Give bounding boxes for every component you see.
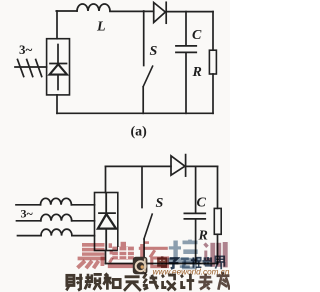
switch S (circuit a) upper lead [143, 11, 145, 66]
inductor phase 1 (circuit b) [41, 198, 72, 205]
watermark red char tuo (expand) [139, 243, 168, 267]
capacitor C (circuit b) bottom lead [195, 220, 197, 264]
diode D (circuit a) cathode bar [165, 2, 167, 23]
svg-text:(a): (a) [131, 125, 148, 140]
switch S (circuit b) lower lead [143, 239, 145, 263]
wire: circuit (a) top rail to diode [110, 10, 154, 12]
svg-text:C: C [192, 28, 202, 43]
wire: circuit (b) right rail lower [217, 234, 219, 263]
inductor phase 3 (circuit b) [41, 229, 72, 236]
wire: three-phase line 1 (circuit b) [16, 204, 41, 206]
watermark rose char xun (training) [205, 242, 226, 267]
inductor L (circuit a) [77, 4, 110, 11]
watermark gray char she (shoot) [66, 274, 82, 291]
wire: phase 3 to rectifier (circuit b) [72, 235, 95, 237]
watermark gray slogan row (scaled) [66, 272, 229, 291]
wire: circuit (b) top rail to diode [106, 165, 172, 167]
wire: phase 2 to rectifier (circuit b) [72, 220, 95, 222]
rectifier U1 (circuit a) box [47, 39, 70, 95]
switch S (circuit b) upper lead [141, 166, 143, 207]
watermark navy char jie (boundary) [215, 256, 224, 269]
rectifier U2 (circuit b) internal diode [98, 193, 116, 250]
diode D (circuit b) triangle [171, 156, 185, 175]
watermark navy char dian (electric) [158, 256, 167, 266]
diode D (circuit a) triangle [154, 3, 166, 23]
svg-text:L: L [96, 20, 106, 35]
wire: circuit (a) top rail left segment [56, 10, 77, 12]
switch S (circuit b) blade [144, 214, 152, 239]
wire: three-phase line 2 (circuit b) [17, 220, 41, 222]
switch S (circuit a) lower lead [142, 87, 144, 113]
resistor R (circuit b) [214, 208, 221, 234]
diode D (circuit b) cathode bar [185, 155, 187, 177]
wire: circuit (b) bottom rail [106, 263, 218, 265]
watermark gray char he (harmony) [103, 273, 120, 289]
capacitor C (circuit a) bottom lead [185, 53, 187, 113]
watermark char di white slots [119, 247, 127, 259]
wire: circuit (a) top-left vertical from rectifier to top rail [56, 11, 58, 39]
wire: three-phase line 3 (circuit b) [18, 235, 42, 237]
wire: circuit (b) top-left vertical [105, 166, 107, 192]
watermark gray char xian (wire) [143, 274, 158, 290]
wire: circuit (b) right rail upper [217, 166, 219, 208]
rectifier U2 (circuit b) box [95, 193, 118, 251]
watermark slate char pei (cultivate) [169, 240, 198, 258]
svg-text:3~: 3~ [21, 207, 34, 221]
inductor phase 2 (circuit b) [41, 214, 72, 221]
wire: circuit (a) bottom-left vertical [56, 95, 58, 113]
svg-text:R: R [192, 65, 202, 80]
watermark red char yi (easy) [78, 243, 106, 260]
resistor R (circuit a) [209, 50, 216, 74]
watermark gray char tian (sky) [124, 277, 141, 291]
svg-text:S: S [150, 44, 158, 59]
watermark logo eeworld [133, 257, 148, 274]
watermark gray char zhuan (expert) [198, 274, 212, 290]
watermark gray char she2 (design) [162, 275, 176, 291]
capacitor C (circuit b) plates [184, 213, 205, 219]
watermark navy char shi (world) [202, 257, 212, 265]
three-phase slash marks (circuit a) [18, 60, 42, 77]
watermark slate char gong (work) [180, 259, 190, 267]
capacitor C (circuit b) top lead [195, 166, 197, 212]
watermark red char di (enlighten) [108, 242, 137, 268]
wire: circuit (a) right rail lower [212, 74, 214, 113]
wire: circuit (b) top rail right segment [186, 165, 218, 167]
switch S (circuit a) blade [143, 66, 152, 86]
watermark navy char cheng (journey) [191, 257, 202, 267]
svg-text:R: R [198, 229, 208, 244]
svg-text:C: C [197, 196, 207, 211]
watermark gray char pin (frequency) [85, 274, 102, 290]
watermark navy char zi (child) [169, 258, 179, 268]
wire: circuit (a) bottom rail [57, 112, 213, 114]
svg-text:3~: 3~ [19, 42, 33, 57]
capacitor C (circuit a) plates [176, 46, 196, 53]
watermark gray char jia (home) [217, 272, 230, 290]
wire: circuit (a) right rail upper [212, 12, 214, 51]
wire: circuit (b) bottom vertical from rectifier [105, 251, 107, 264]
wire: three-phase input line (circuit a) [15, 66, 47, 68]
wire: circuit (a) top rail right segment [166, 11, 213, 13]
svg-text:S: S [156, 196, 164, 211]
wire: phase 1 to rectifier (circuit b) [71, 204, 94, 206]
watermark gray char ji (count) [181, 274, 194, 291]
rectifier U1 (circuit a) internal diode [50, 45, 68, 90]
capacitor C (circuit a) top lead [185, 12, 187, 45]
